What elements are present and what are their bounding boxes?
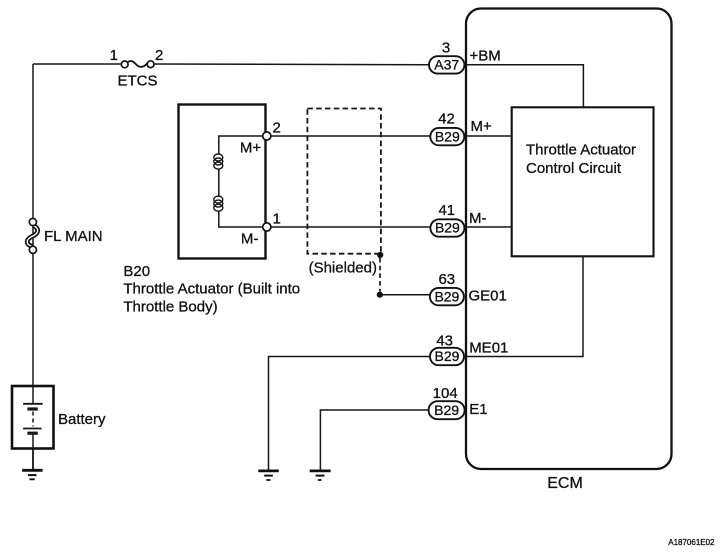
terminal 2 of actuator: [263, 132, 271, 140]
pin number 2 (actuator): [273, 120, 281, 137]
wire M+ inside ECM: [464, 135, 512, 137]
throttle actuator B20 box: [179, 105, 266, 259]
wire motor winding top lead: [219, 136, 263, 155]
pin label ME01: [469, 340, 508, 357]
connector pin B29-43 (ME01): [430, 348, 464, 365]
wire M- from actuator terminal 1 to ECM pin B29-41: [271, 226, 431, 228]
svg-text:M+: M+: [240, 140, 261, 157]
svg-text:B29: B29: [435, 348, 460, 364]
pin number 41: [438, 202, 455, 219]
svg-text:Throttle Actuator (Built into: Throttle Actuator (Built into: [123, 281, 300, 298]
svg-text:43: 43: [436, 333, 453, 350]
svg-text:2: 2: [155, 47, 163, 64]
wire shield drain dashed: [379, 258, 381, 292]
pin number 1 (actuator): [273, 211, 281, 228]
svg-text:E1: E1: [469, 401, 487, 418]
pin number 104: [433, 385, 458, 402]
svg-text:2: 2: [273, 120, 281, 137]
pin number 3: [442, 40, 450, 57]
wire M+ from actuator terminal 2 to ECM pin B29-42: [271, 135, 431, 137]
svg-text:+BM: +BM: [470, 48, 501, 65]
svg-text:(Shielded): (Shielded): [309, 260, 377, 277]
ground (ME01): [258, 471, 279, 480]
wire motor winding bottom lead: [219, 211, 263, 228]
pin number 43: [436, 333, 453, 350]
inductor L1 upper winding: [214, 154, 223, 169]
label (Shielded): [309, 260, 377, 277]
svg-text:M-: M-: [469, 210, 487, 227]
pin label E1: [469, 401, 487, 418]
svg-text:Throttle Body): Throttle Body): [123, 299, 217, 316]
battery BAT1 box: [12, 386, 54, 449]
svg-text:B29: B29: [434, 402, 459, 418]
connector pin B29-104 (E1): [429, 401, 465, 419]
fusible link FL MAIN: [27, 218, 37, 253]
connector pin B29-42 (M+): [430, 128, 464, 145]
connector pin A37 (+BM): [429, 56, 464, 73]
svg-text:M+: M+: [471, 118, 492, 135]
connector pin B29-63 (GE01): [430, 288, 464, 305]
wire between windings: [218, 169, 220, 197]
terminal 1 of actuator: [263, 223, 271, 231]
inductor L2 lower winding: [214, 196, 223, 211]
throttle actuator control circuit box: [512, 107, 654, 256]
wire M- inside ECM: [464, 226, 512, 228]
wire E1 to ground: [320, 410, 428, 470]
ground (E1): [310, 471, 331, 480]
junction dot shield drain: [377, 292, 383, 298]
ground (battery): [22, 470, 42, 479]
wire battery negative to ground: [32, 448, 34, 470]
svg-text:Throttle Actuator: Throttle Actuator: [526, 142, 636, 159]
label FL MAIN: [44, 228, 103, 245]
battery internal symbol: [23, 386, 43, 448]
svg-text:3: 3: [442, 40, 450, 57]
svg-text:M-: M-: [241, 231, 259, 248]
svg-text:ECM: ECM: [547, 475, 583, 492]
pin number 42: [438, 111, 455, 128]
label Throttle Actuator Control Circuit: [526, 142, 636, 178]
svg-text:1: 1: [273, 211, 281, 228]
label Battery: [58, 411, 106, 428]
svg-text:ETCS: ETCS: [117, 73, 157, 90]
svg-text:GE01: GE01: [469, 287, 507, 304]
svg-text:A37: A37: [434, 57, 459, 73]
pin label M+ (actuator): [240, 140, 261, 157]
junction dot at shield corner: [377, 252, 383, 258]
svg-text:ME01: ME01: [469, 340, 508, 357]
wire ME01 inside ECM from control circuit: [464, 256, 583, 356]
svg-text:Control Circuit: Control Circuit: [526, 160, 622, 177]
label A187061E02: [668, 538, 715, 547]
svg-text:B20: B20: [123, 263, 150, 280]
pin label +BM: [470, 48, 501, 65]
shield (Shielded) dashed box: [307, 109, 381, 254]
ECM U1 box: [466, 9, 672, 470]
pin label M-: [469, 210, 487, 227]
svg-text:104: 104: [433, 385, 458, 402]
wire shield drain to ECM pin B29-63: [380, 294, 431, 296]
wire +BM inside ECM: [464, 65, 583, 108]
fuse F1 ETCS: [121, 61, 154, 68]
svg-text:B29: B29: [434, 288, 459, 304]
svg-text:41: 41: [438, 202, 455, 219]
pin label GE01: [469, 287, 507, 304]
label ECM: [547, 475, 583, 492]
svg-text:B29: B29: [435, 128, 460, 144]
svg-text:B29: B29: [435, 220, 460, 236]
pin number 2 (fuse ETCS): [155, 47, 163, 64]
svg-text:63: 63: [438, 271, 455, 288]
pin number 1 (fuse ETCS): [110, 47, 118, 64]
value label ETCS: [117, 73, 157, 90]
label B20 Throttle Actuator: [123, 263, 300, 316]
svg-text:FL MAIN: FL MAIN: [44, 228, 103, 245]
wire top horizontal from battery feed to fuse terminal 1: [33, 63, 122, 65]
connector pin B29-41 (M-): [430, 219, 464, 236]
svg-text:Battery: Battery: [58, 411, 106, 428]
pin label M+: [471, 118, 492, 135]
svg-text:42: 42: [438, 111, 455, 128]
pin number 63: [438, 271, 455, 288]
wire left vertical from top wire to battery: [32, 64, 34, 385]
pin label M- (actuator): [241, 231, 259, 248]
wire ME01 to ground: [269, 357, 431, 470]
svg-text:A187061E02: A187061E02: [668, 538, 715, 547]
svg-text:1: 1: [110, 47, 118, 64]
wire from fuse terminal 2 to ECM pin A37: [154, 63, 431, 66]
